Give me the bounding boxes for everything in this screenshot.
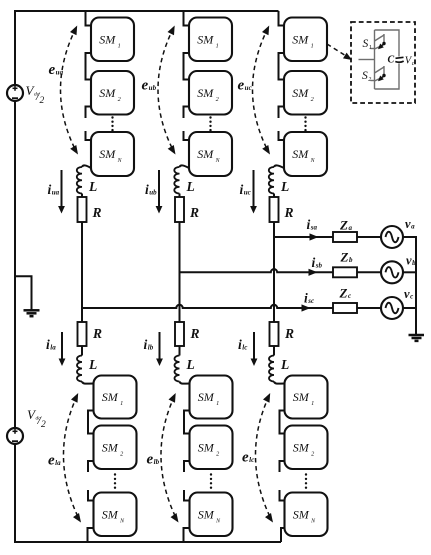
- wire: ground stub from left bus: [15, 276, 32, 309]
- submodule SMN upper phase a: [91, 132, 134, 176]
- ac source va: [381, 226, 403, 248]
- arc arrow e_uc: [253, 26, 271, 155]
- current arrow i_lb: [156, 332, 163, 366]
- svg-text:R: R: [92, 326, 102, 341]
- label Za: [339, 218, 352, 233]
- wire: SM1-SM2 link upper phase c: [279, 53, 285, 80]
- resistor R upper phase c: [270, 197, 279, 222]
- submodule SM1 upper phase c: [284, 18, 327, 62]
- wire: Za to source va: [357, 236, 381, 238]
- ellipsis dots upper phase a: [111, 116, 113, 131]
- arc arrow e_ub: [158, 26, 176, 155]
- dashed detail box: [351, 22, 415, 103]
- wire: output line phase a: [274, 236, 333, 238]
- label R upper phase a: [92, 205, 102, 220]
- label i_sc: [304, 291, 314, 306]
- svg-text:L: L: [88, 357, 97, 372]
- current arrow i_la: [59, 332, 66, 366]
- submodule SM1 upper phase a: [91, 18, 134, 62]
- arc arrow e_lc: [255, 393, 273, 523]
- impedance Za: [333, 232, 357, 242]
- current arrow i_sb: [309, 269, 318, 276]
- label v_a: [405, 217, 415, 231]
- svg-text:ila: ila: [46, 337, 56, 352]
- label L upper phase b: [186, 179, 195, 194]
- svg-text:va: va: [405, 217, 415, 231]
- label e_la: [48, 453, 61, 469]
- label C: [388, 54, 395, 65]
- svg-text:Vc: Vc: [405, 56, 415, 68]
- resistor R upper phase b: [175, 197, 184, 222]
- wire: left DC bus (middle segment): [14, 101, 16, 428]
- wire: half-bridge outline: [375, 30, 400, 89]
- resistor R lower phase a: [78, 322, 87, 346]
- wire: SM2 lower stub upper phase b: [184, 107, 190, 119]
- resistor R lower phase c: [270, 322, 279, 346]
- ellipsis dots lower phase b: [210, 473, 212, 489]
- label Vdc/2 (upper): [26, 83, 45, 106]
- submodule SMN lower phase a: [94, 493, 137, 537]
- wire: SMN upper stub phase c: [279, 131, 285, 140]
- label i_ub: [145, 182, 157, 197]
- svg-text:L: L: [186, 179, 195, 194]
- wire: resistor to inductor lower phase b: [179, 346, 181, 356]
- svg-text:isc: isc: [304, 291, 314, 306]
- label R lower phase a: [92, 326, 102, 341]
- svg-text:C: C: [388, 54, 395, 65]
- svg-text:isa: isa: [307, 217, 318, 232]
- wire: SMN upper stub lower phase c: [280, 490, 285, 501]
- ground (DC midpoint): [24, 310, 40, 316]
- submodule SMN upper phase c: [284, 132, 327, 176]
- label Zb: [340, 250, 353, 265]
- label i_lc: [238, 337, 247, 352]
- voltage source Vdc/2 (lower): [7, 428, 23, 444]
- wire: leg phase c upper-R to lower-R: [273, 222, 275, 322]
- svg-text:ilc: ilc: [238, 337, 247, 352]
- svg-text:elb: elb: [147, 452, 160, 468]
- wire: left DC bus (top segment): [14, 10, 16, 85]
- submodule SMN upper phase b: [189, 132, 232, 176]
- label e_uc: [238, 78, 252, 94]
- label i_sb: [312, 255, 323, 270]
- ac source vb: [381, 261, 403, 283]
- wire: va to right bus: [403, 236, 417, 238]
- wire: SM1-SM2 link lower phase c: [280, 411, 285, 434]
- svg-text:iua: iua: [48, 182, 60, 197]
- wire: output line phase b: [180, 269, 334, 272]
- label i_la: [46, 337, 56, 352]
- label L upper phase c: [280, 179, 289, 194]
- current arrow i_ub: [156, 170, 163, 214]
- label e_ub: [142, 78, 157, 94]
- label e_ua: [49, 62, 64, 78]
- svg-text:L: L: [280, 179, 289, 194]
- label i_sa: [307, 217, 318, 232]
- svg-text:eua: eua: [49, 62, 64, 78]
- svg-text:L: L: [186, 357, 195, 372]
- resistor R upper phase a: [78, 197, 87, 222]
- wire: leg phase b upper-R to lower-R: [179, 222, 181, 322]
- svg-text:2: 2: [40, 96, 45, 106]
- ellipsis dots lower phase c: [305, 473, 307, 489]
- svg-text:vb: vb: [406, 254, 416, 268]
- wire: right AC bus: [415, 237, 417, 335]
- wire: SM2 lower stub lower phase a: [88, 461, 94, 472]
- submodule SM2 upper phase b: [189, 71, 232, 115]
- wire: SM1-SM2 link lower phase b: [184, 411, 190, 434]
- submodule SM1 lower phase c: [285, 376, 328, 419]
- svg-text:ela: ela: [48, 453, 61, 469]
- submodule SM1 lower phase b: [190, 376, 233, 419]
- label v_b: [406, 254, 416, 268]
- voltage source Vdc/2 (upper): [7, 85, 23, 101]
- wire: SMN upper stub lower phase a: [88, 490, 94, 501]
- wire: SM1-SM2 link upper phase a: [86, 53, 92, 80]
- label i_lb: [144, 337, 154, 352]
- svg-text:R: R: [284, 205, 294, 220]
- svg-text:R: R: [284, 326, 294, 341]
- wire: Zb to source vb: [357, 271, 381, 273]
- label L upper phase a: [88, 179, 97, 194]
- svg-text:iub: iub: [145, 182, 157, 197]
- submodule SM1 upper phase b: [189, 18, 232, 62]
- submodule SM2 upper phase a: [91, 71, 134, 115]
- inductor L upper phase c: [269, 167, 274, 193]
- wire: midpoint terminal: [359, 59, 375, 61]
- wire: SM2 lower stub lower phase b: [184, 461, 190, 472]
- label Vdc/2 (lower): [27, 407, 46, 430]
- svg-text:L: L: [280, 357, 289, 372]
- wire: top drop to SM1 phase b: [184, 11, 190, 26]
- wire: SMN to bottom bus phase b: [184, 528, 190, 542]
- svg-text:eub: eub: [142, 78, 157, 94]
- arc arrow e_lb: [161, 393, 179, 523]
- label L lower phase a: [88, 357, 97, 372]
- svg-text:S2: S2: [362, 70, 371, 83]
- wire: output line phase c: [82, 305, 333, 308]
- current arrow i_sc: [302, 304, 311, 311]
- label R lower phase c: [284, 326, 294, 341]
- label Zc: [339, 286, 352, 301]
- label R lower phase b: [190, 326, 200, 341]
- submodule SM2 lower phase c: [285, 426, 328, 470]
- label e_lc: [242, 450, 254, 466]
- wire: bottom DC bus: [14, 541, 281, 543]
- current arrow i_sa: [310, 233, 319, 240]
- wire: top drop to SM1 phase c: [279, 11, 285, 26]
- svg-text:elc: elc: [242, 450, 254, 466]
- wire: inductor to resistor upper phase a: [81, 194, 83, 198]
- label S1: [363, 38, 372, 51]
- wire: left DC bus (bottom segment): [14, 444, 16, 542]
- submodule SMN lower phase c: [285, 493, 328, 537]
- wire: inductor to SM1 lower phase a: [82, 382, 94, 384]
- wire: SMN to inductor upper phase a: [82, 165, 91, 168]
- wire: SMN to bottom bus phase c: [281, 528, 285, 542]
- wire: vb to right bus: [403, 271, 416, 273]
- resistor R lower phase b: [175, 322, 184, 346]
- wire: leg phase a upper-R to lower-R: [81, 222, 83, 322]
- svg-text:iuc: iuc: [240, 182, 251, 197]
- current arrow i_uc: [250, 170, 257, 214]
- label e_lb: [147, 452, 160, 468]
- wire: SMN upper stub phase a: [86, 131, 92, 140]
- submodule SM2 lower phase a: [94, 426, 137, 470]
- svg-text:R: R: [92, 205, 102, 220]
- svg-text:ilb: ilb: [144, 337, 154, 352]
- wire: inductor to SM1 lower phase b: [180, 382, 190, 384]
- arc arrow e_la: [63, 393, 81, 523]
- switch S1: [371, 34, 386, 49]
- label v_c: [404, 287, 413, 301]
- wire: vc to right bus: [403, 307, 416, 309]
- capacitor C: [395, 57, 403, 62]
- svg-text:Zc: Zc: [339, 286, 352, 301]
- svg-text:R: R: [189, 205, 199, 220]
- wire: SMN upper stub phase b: [184, 131, 190, 140]
- impedance Zc: [333, 303, 357, 313]
- svg-text:isb: isb: [312, 255, 323, 270]
- svg-text:L: L: [88, 179, 97, 194]
- inductor L upper phase b: [174, 167, 179, 193]
- ac source vc: [381, 297, 403, 319]
- inductor L lower phase b: [175, 356, 180, 382]
- svg-text:S1: S1: [363, 38, 372, 51]
- inductor L upper phase a: [77, 167, 82, 193]
- label i_uc: [240, 182, 251, 197]
- impedance Zb: [333, 267, 357, 277]
- ground (AC neutral): [409, 335, 425, 341]
- label R upper phase b: [189, 205, 199, 220]
- wire: inductor to SM1 lower phase c: [274, 382, 285, 384]
- wire: SM1-SM2 link upper phase b: [184, 53, 190, 80]
- label i_ua: [48, 182, 60, 197]
- wire: SM1-SM2 link lower phase a: [88, 411, 94, 434]
- wire: Zc to source vc: [357, 307, 381, 309]
- wire: resistor to inductor lower phase c: [273, 346, 275, 356]
- wire: SM2 lower stub upper phase c: [279, 107, 285, 119]
- wire: SMN to inductor upper phase b: [180, 165, 190, 168]
- wire: SM2 lower stub lower phase c: [280, 461, 285, 472]
- wire: SMN to inductor upper phase c: [274, 165, 284, 168]
- submodule SM1 lower phase a: [94, 376, 137, 419]
- submodule SM2 upper phase c: [284, 71, 327, 115]
- ellipsis dots lower phase a: [114, 473, 116, 489]
- submodule SM2 lower phase b: [190, 426, 233, 470]
- wire: inductor to resistor upper phase b: [179, 194, 181, 198]
- wire: SM2 lower stub upper phase a: [86, 107, 92, 119]
- current arrow i_ua: [58, 170, 65, 214]
- ellipsis dots upper phase b: [209, 116, 211, 131]
- wire: SMN upper stub lower phase b: [184, 490, 190, 501]
- arc arrow: SM1 to detail box: [327, 44, 352, 60]
- svg-text:Zb: Zb: [340, 250, 353, 265]
- submodule SMN lower phase b: [190, 493, 233, 537]
- wire: top drop to SM1 phase a: [86, 11, 92, 26]
- svg-text:2: 2: [41, 420, 46, 430]
- arc arrow e_ua: [61, 26, 79, 155]
- svg-text:euc: euc: [238, 78, 252, 94]
- label L lower phase b: [186, 357, 195, 372]
- wire: resistor to inductor lower phase a: [81, 346, 83, 356]
- label S2: [362, 70, 371, 83]
- inductor L lower phase a: [77, 356, 82, 382]
- svg-text:Za: Za: [339, 218, 352, 233]
- wire: inductor to resistor upper phase c: [273, 194, 275, 198]
- current arrow i_lc: [251, 332, 258, 366]
- inductor L lower phase c: [269, 356, 274, 382]
- wire: top DC bus: [14, 10, 279, 12]
- wire: SMN to bottom bus phase a: [88, 528, 94, 542]
- switch S2: [371, 66, 386, 81]
- svg-text:vc: vc: [404, 287, 413, 301]
- ellipsis dots upper phase c: [304, 116, 306, 131]
- label L lower phase c: [280, 357, 289, 372]
- label R upper phase c: [284, 205, 294, 220]
- svg-text:R: R: [190, 326, 200, 341]
- label Vc: [405, 56, 415, 68]
